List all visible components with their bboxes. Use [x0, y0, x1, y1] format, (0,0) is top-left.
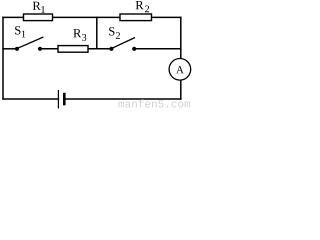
wire left border: [2, 17, 4, 99]
label S2: [109, 27, 120, 39]
switch S2: [109, 38, 136, 51]
wire middle row 1: [3, 48, 17, 50]
wire bottom segment 2: [65, 98, 181, 100]
label R3: [73, 29, 86, 41]
wire center vertical: [96, 17, 98, 48]
wire right border upper: [180, 17, 182, 58]
resistor R2: [120, 14, 152, 21]
switch S1: [15, 37, 44, 51]
wire top segment 3: [152, 16, 181, 18]
ammeter A: [169, 59, 191, 81]
wire middle row 4: [134, 48, 181, 50]
battery: [58, 90, 64, 108]
wire top segment 2: [53, 16, 121, 18]
wire right border lower: [180, 80, 182, 99]
wire top segment 1: [3, 16, 24, 18]
resistor R1: [24, 14, 53, 21]
resistor R3: [58, 46, 88, 53]
label R2: [136, 1, 149, 12]
wire middle row 2: [40, 48, 58, 50]
wire bottom segment 1: [3, 98, 58, 100]
label R1: [33, 2, 45, 13]
wire middle row 3: [88, 48, 111, 50]
watermark manfen5.com: [119, 99, 191, 107]
label S1: [15, 26, 25, 37]
